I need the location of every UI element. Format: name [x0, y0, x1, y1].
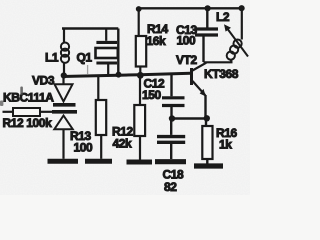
resistor R12 42k (vertical) — [134, 77, 145, 160]
wire top of L1/Q1 tank — [62, 27, 118, 29]
ground (VD3) — [48, 159, 79, 164]
wire (scan smudge under Q1 label) — [87, 65, 89, 74]
capacitor C12 — [162, 75, 185, 118]
inductor L2 (variable) — [224, 5, 248, 62]
wire emitter horizontal — [171, 117, 207, 119]
node C12/C18 junction — [169, 115, 175, 121]
node base divider junction — [137, 72, 144, 79]
ground (C18) — [155, 159, 186, 164]
ground (R12 42k) — [127, 160, 153, 165]
node emitter junction — [204, 115, 210, 121]
svg-text:100: 100 — [177, 34, 197, 48]
svg-text:R12 100k: R12 100k — [3, 116, 53, 130]
resistor R13 — [96, 76, 106, 159]
varicap VD3 (dual KBC111A) — [52, 77, 77, 159]
node junction tank right bottom — [116, 72, 122, 78]
transistor VT2 KT368 — [192, 63, 207, 118]
svg-text:KT368: KT368 — [204, 67, 239, 81]
svg-text:150: 150 — [142, 88, 162, 102]
node rail left corner — [136, 6, 142, 12]
resistor R12 100k (horizontal) — [3, 108, 54, 116]
inductor L1 — [61, 29, 69, 73]
wire collector node horizontal — [204, 61, 233, 63]
node L1 bottom / VD3 top — [61, 72, 67, 78]
ground (R13) — [85, 159, 112, 164]
wire right side of tank down to base net — [117, 29, 119, 75]
scan blob at left edge — [0, 101, 3, 107]
svg-text:1k: 1k — [219, 138, 232, 152]
capacitor C13 — [195, 5, 218, 62]
capacitor C18 — [157, 120, 185, 159]
svg-text:L1: L1 — [45, 51, 59, 65]
crystal Q1 — [96, 29, 118, 75]
scan blob left of varicap — [20, 87, 23, 96]
wire bottom horizontal run (tank bottom to VT2 base) — [62, 73, 191, 76]
resistor R16 1k — [202, 120, 212, 164]
svg-text:L2: L2 — [216, 10, 230, 24]
ground (R16) — [194, 163, 223, 168]
svg-text:42k: 42k — [113, 137, 133, 151]
svg-text:100: 100 — [74, 141, 94, 155]
resistor R14 16k — [136, 9, 146, 74]
svg-text:82: 82 — [164, 180, 177, 194]
svg-text:VD3: VD3 — [32, 74, 55, 88]
wire top supply rail — [137, 7, 244, 9]
svg-text:Q1: Q1 — [77, 51, 93, 65]
svg-text:KBC111A: KBC111A — [3, 91, 54, 105]
svg-text:VT2: VT2 — [176, 53, 198, 67]
svg-text:16k: 16k — [147, 34, 167, 48]
